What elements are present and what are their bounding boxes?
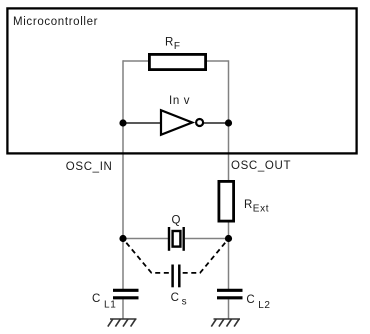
- svg-text:F: F: [174, 41, 181, 52]
- svg-text:Q: Q: [172, 214, 182, 226]
- svg-text:In v: In v: [169, 95, 190, 107]
- svg-text:s: s: [182, 296, 188, 307]
- svg-text:L1: L1: [104, 299, 116, 310]
- svg-text:Ext: Ext: [253, 204, 269, 215]
- svg-text:C: C: [171, 292, 180, 304]
- svg-text:C: C: [246, 294, 255, 306]
- svg-text:R: R: [244, 199, 253, 211]
- svg-text:L2: L2: [258, 300, 270, 311]
- svg-text:Microcontroller: Microcontroller: [13, 16, 98, 28]
- svg-text:OSC_IN: OSC_IN: [66, 161, 113, 173]
- svg-text:R: R: [165, 37, 174, 49]
- svg-text:C: C: [92, 293, 101, 305]
- svg-text:OSC_OUT: OSC_OUT: [231, 160, 291, 172]
